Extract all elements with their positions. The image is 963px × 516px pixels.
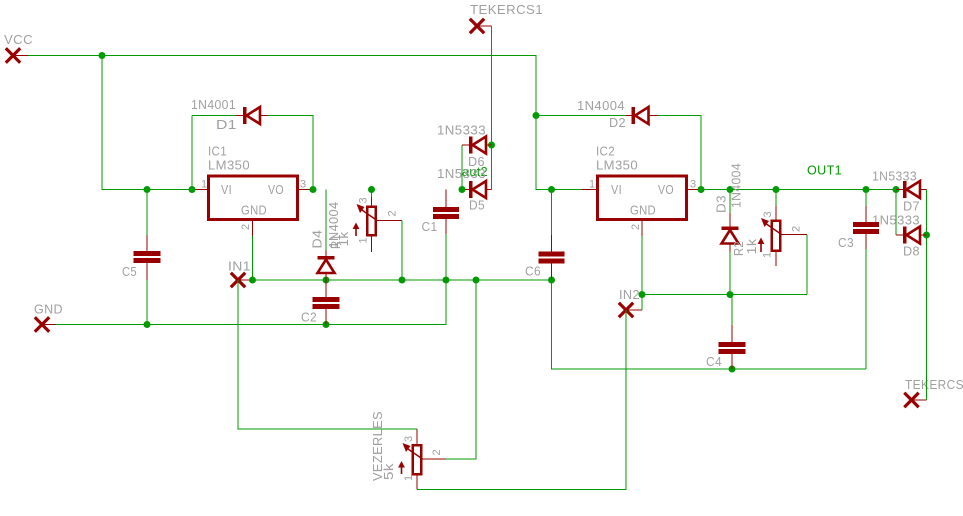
svg-text:D2: D2 (609, 115, 626, 130)
junction C5 bottom (144, 321, 151, 328)
label D7 (903, 199, 920, 214)
value 1N5333 of D7 (872, 169, 917, 184)
R1 pin 3 stub (371, 197, 373, 206)
D7 anode pin (920, 189, 927, 191)
wire C6 bottom drop (552, 280, 867, 369)
wire IC2 adj drop (641, 236, 643, 310)
junction D2 tap (533, 112, 540, 119)
IC1 pin number 1 (201, 179, 208, 191)
label D5 (469, 198, 485, 213)
capacitor C6 (539, 252, 565, 264)
C4 pin 1 (731, 325, 733, 342)
svg-text:2: 2 (387, 210, 399, 217)
value 1N5333 of D6 (437, 123, 486, 138)
svg-text:1: 1 (762, 251, 774, 258)
wire D2 left leg (536, 115, 626, 117)
R3 adjust arrow (398, 461, 405, 474)
svg-text:3: 3 (300, 179, 307, 191)
potentiometer R3 VEZERLES 5k body (413, 445, 422, 474)
junction D3 top (727, 186, 734, 193)
svg-text:1N5333: 1N5333 (872, 169, 917, 184)
svg-text:TEKERCS1: TEKERCS1 (470, 2, 543, 17)
svg-text:D7: D7 (903, 199, 920, 214)
capacitor C4 (719, 342, 746, 354)
label D6 (468, 154, 485, 169)
svg-text:1: 1 (201, 179, 208, 191)
svg-text:1: 1 (403, 474, 415, 481)
D5 cathode pin (462, 189, 469, 191)
capacitor C2 (313, 297, 340, 309)
wire D1 right leg (268, 116, 313, 190)
net label TEKERCS1 (470, 2, 543, 17)
R2 pin 2 stub (782, 234, 808, 236)
junction C3 top (863, 186, 870, 193)
IC2 pin name GND (630, 203, 656, 218)
wire C3 top leg (865, 190, 867, 207)
IC2 pin 3 stub (687, 189, 702, 191)
svg-text:1: 1 (589, 179, 596, 191)
R1 pin 2 stub (377, 220, 402, 222)
svg-text:LM350: LM350 (596, 158, 638, 173)
svg-text:VO: VO (268, 182, 284, 197)
junction IC1 output (310, 186, 317, 193)
IC1 pin name VO (268, 182, 284, 197)
wire R1 wiper drop (401, 221, 403, 281)
svg-text:VI: VI (221, 182, 232, 197)
svg-text:OUT1: OUT1 (807, 163, 842, 178)
IC1 pin 3 stub (298, 189, 314, 191)
wire ADJ2 rail (642, 294, 807, 296)
svg-text:D5: D5 (469, 198, 485, 213)
D1 cathode pin (236, 115, 243, 117)
C4 pin 2 (731, 354, 733, 369)
label D2 (609, 115, 626, 130)
capacitor C1 (433, 207, 459, 219)
svg-text:1N5333: 1N5333 (872, 213, 920, 228)
wire IC1 adj drop (252, 236, 254, 280)
D2 cathode pin (626, 115, 632, 117)
label IC2 (596, 144, 615, 159)
svg-text:3: 3 (358, 197, 370, 204)
junction D7 left (893, 186, 900, 193)
value 5k of R3 (381, 463, 396, 480)
svg-text:TEKERCS2: TEKERCS2 (905, 377, 963, 392)
svg-text:VO: VO (658, 182, 674, 197)
C5 pin 1 (146, 235, 148, 251)
svg-text:IC2: IC2 (596, 144, 615, 159)
wire IN1 to VEZERLES pot (238, 280, 417, 429)
svg-text:D1: D1 (216, 117, 237, 132)
junction C6 top (548, 186, 555, 193)
zener diode D6 (469, 137, 486, 154)
label VEZERLES (370, 411, 385, 481)
label D1 (216, 117, 237, 132)
D3 anode pin (729, 244, 731, 252)
R1 pin number 2 (387, 210, 399, 217)
wire D2 right leg (658, 116, 701, 190)
pin TEKERCS2 (904, 393, 926, 407)
D6 anode pin (486, 144, 492, 146)
junction D4-C2 (323, 277, 330, 284)
wire IN2 down to pot bottom (417, 310, 626, 490)
IC2 pin number 1 (589, 179, 596, 191)
R1 pin number 3 (358, 197, 370, 204)
junction C4 bottom (729, 366, 736, 373)
wire C5 top leg (146, 190, 148, 236)
wire TEKERCS1 down (491, 26, 493, 190)
wire D3 top leg (729, 190, 731, 214)
junction C2 bottom (323, 321, 330, 328)
pin TEKERCS1 (470, 19, 492, 33)
net label VCC (4, 32, 33, 47)
value 1N5333 of D8 (872, 213, 920, 228)
IC1 pin 1 stub (192, 189, 209, 191)
svg-text:GND: GND (34, 302, 63, 317)
D5 anode pin (486, 189, 492, 191)
R2 pin 1 stub (775, 252, 777, 266)
potentiometer R1 1k body (367, 207, 376, 236)
D8 cathode pin (896, 234, 903, 236)
junction IC2 output (698, 186, 705, 193)
wire C1 bottom leg (445, 234, 447, 280)
D1 anode pin (260, 115, 268, 117)
svg-text:1k: 1k (744, 238, 759, 254)
C2 pin 2 (325, 309, 327, 325)
label R1 (328, 234, 343, 249)
diode D2 (632, 107, 649, 124)
svg-text:GND: GND (630, 203, 656, 218)
junction C1 bottom (443, 277, 450, 284)
supply symbol VCC (6, 48, 28, 62)
wire GND rail (56, 280, 446, 325)
wire D6 left leg (461, 145, 463, 190)
junction D8 right (923, 232, 930, 239)
wire VCC rail (28, 56, 582, 190)
svg-text:3: 3 (690, 179, 697, 191)
IC2 pin number 2 (630, 223, 642, 230)
svg-text:C6: C6 (525, 264, 541, 279)
IC1 pin 2 stub (252, 220, 254, 237)
wire D7-D8 right column (926, 190, 928, 401)
value 1k of R1 (336, 231, 351, 246)
junction IC1 adj (249, 277, 256, 284)
D8 anode pin (920, 234, 927, 236)
R1 wiper arrow (357, 204, 378, 221)
D4 anode pin (325, 274, 327, 281)
wire C6 top leg (551, 190, 553, 236)
zener diode D5 (469, 181, 486, 198)
D4 cathode pin (325, 250, 327, 256)
svg-text:1N4001: 1N4001 (191, 97, 236, 112)
label D3 (714, 195, 729, 213)
D2 anode pin (649, 115, 659, 117)
svg-text:GND: GND (241, 203, 267, 218)
IC1 pin number 3 (300, 179, 307, 191)
R2 wiper arrow (761, 218, 782, 235)
IC2 pin 2 stub (641, 220, 643, 237)
wire ADJ1 rail (253, 279, 552, 281)
label D8 (903, 244, 920, 259)
junction D3 bottom (727, 291, 734, 298)
R3 pin 1 stub (416, 476, 418, 490)
net label IN2 (619, 287, 640, 302)
junction R1 wiper (399, 277, 406, 284)
diode D1 (243, 107, 260, 124)
value 1k of R2 (744, 238, 759, 254)
svg-text:D8: D8 (903, 244, 920, 259)
label C3 (838, 235, 854, 250)
label D4 (310, 230, 325, 249)
svg-text:C1: C1 (422, 219, 438, 234)
C6 pin 2 (551, 264, 553, 281)
junction VEZERLES wiper riser (473, 277, 480, 284)
supply symbol GND (35, 317, 56, 331)
wire C4 top leg (731, 295, 733, 326)
IC2 pin name VO (658, 182, 674, 197)
value LM350 of IC1 (208, 158, 250, 173)
IC2 pin number 3 (690, 179, 697, 191)
R2 pin 3 stub (775, 206, 777, 220)
D6 cathode pin (462, 144, 469, 146)
junction R2 top (773, 186, 780, 193)
IC2 pin 1 stub (582, 189, 598, 191)
wire R2 top leg (775, 190, 777, 207)
wire D3 bottom leg (729, 252, 731, 295)
svg-text:IC1: IC1 (208, 144, 227, 159)
zener diode D8 (903, 227, 920, 244)
svg-text:IN1: IN1 (228, 259, 251, 274)
C3 pin 2 (865, 234, 867, 249)
R3 pin number 1 (403, 474, 415, 481)
svg-text:VCC: VCC (4, 32, 33, 47)
value 1N5333 of D5 (437, 166, 486, 181)
net label TEKERCS2 (905, 377, 963, 392)
R2 pin number 3 (762, 211, 774, 218)
IC1 pin name VI (221, 182, 232, 197)
R2 pin number 1 (762, 251, 774, 258)
wire D1 left leg (192, 116, 236, 190)
svg-text:5k: 5k (381, 463, 396, 480)
junction D6 right (488, 142, 495, 149)
junction VCC rail x102 (99, 52, 106, 59)
svg-text:2: 2 (240, 223, 252, 230)
wire D4 top leg (325, 190, 327, 251)
value 1N4004 of D4 (326, 202, 341, 249)
label C1 (422, 219, 438, 234)
svg-text:1N5333: 1N5333 (437, 123, 486, 138)
junction R1 top (368, 186, 375, 193)
svg-text:1N5333: 1N5333 (437, 166, 486, 181)
R2 adjust arrow (758, 238, 765, 253)
D3 cathode pin (729, 213, 731, 227)
wire R1 top leg (371, 190, 373, 198)
R1 adjust arrow (353, 223, 360, 237)
D7 cathode pin (896, 189, 903, 191)
label C4 (706, 354, 722, 369)
net label GND (34, 302, 63, 317)
wire C3 bottom leg (865, 249, 867, 369)
IC1 pin name GND (241, 203, 267, 218)
diode D4 (318, 256, 335, 273)
wire D8 left leg (895, 190, 897, 236)
value 1N4004 of D3 (729, 163, 744, 208)
svg-text:C4: C4 (706, 354, 722, 369)
wire OUT1 rail (701, 189, 896, 191)
svg-text:2: 2 (630, 223, 642, 230)
svg-text:3: 3 (403, 435, 415, 442)
wire R2 wiper drop (806, 235, 808, 295)
net label OUT1 (807, 163, 842, 178)
label C5 (122, 264, 137, 279)
wire VCC drop to IC1 input (102, 56, 192, 190)
svg-text:2: 2 (791, 225, 803, 232)
IC1 pin number 2 (240, 223, 252, 230)
svg-text:VI: VI (611, 182, 622, 197)
C6 pin 1 (551, 235, 553, 252)
R3 pin 3 stub (416, 429, 418, 444)
R1 pin number 1 (358, 237, 370, 244)
capacitor C3 (853, 222, 879, 234)
potentiometer R2 1k body (772, 221, 781, 251)
C2 pin 1 (325, 280, 327, 297)
svg-text:C5: C5 (122, 264, 137, 279)
junction D5 left (459, 186, 466, 193)
op-amp regulator IC2 LM350 body (598, 176, 687, 220)
svg-text:D3: D3 (714, 195, 729, 213)
C1 pin 1 (445, 190, 447, 208)
svg-text:1N4004: 1N4004 (729, 163, 744, 208)
svg-text:D4: D4 (310, 230, 325, 249)
value 1N4001 of D1 (191, 97, 236, 112)
svg-text:C3: C3 (838, 235, 854, 250)
op-amp regulator IC1 LM350 body (209, 176, 298, 220)
junction C6 bottom (548, 277, 555, 284)
label C6 (525, 264, 541, 279)
junction IC2 adj (639, 291, 646, 298)
pin IN1 (231, 273, 253, 287)
wire C5 bottom leg (146, 280, 148, 325)
value LM350 of IC2 (596, 158, 638, 173)
svg-text:C2: C2 (301, 310, 317, 325)
R3 wiper arrow (403, 443, 423, 459)
junction C5 top (144, 186, 151, 193)
IC2 pin name VI (611, 182, 622, 197)
R1 pin 1 stub (371, 237, 373, 253)
svg-text:IN2: IN2 (619, 287, 640, 302)
diode D3 (722, 227, 739, 244)
R2 pin number 2 (791, 225, 803, 232)
net label aut2 (462, 164, 488, 179)
net label IN1 (228, 259, 251, 274)
svg-text:1k: 1k (336, 231, 351, 246)
junction IC1 input (189, 186, 196, 193)
C1 pin 2 (445, 219, 447, 234)
svg-text:LM350: LM350 (208, 158, 250, 173)
label R2 (731, 241, 746, 256)
value 1N4004 of D2 (577, 98, 625, 113)
svg-text:2: 2 (431, 449, 443, 456)
label IC1 (208, 144, 227, 159)
R3 pin 2 stub (423, 458, 447, 460)
svg-text:3: 3 (762, 211, 774, 218)
C5 pin 2 (146, 263, 148, 280)
label C2 (301, 310, 317, 325)
capacitor C5 (134, 251, 161, 263)
C3 pin 1 (865, 206, 867, 222)
R3 pin number 2 (431, 449, 443, 456)
svg-text:1N4004: 1N4004 (577, 98, 625, 113)
zener diode D7 (903, 181, 920, 198)
svg-text:1: 1 (358, 237, 370, 244)
R3 pin number 3 (403, 435, 415, 442)
pin IN2 (619, 303, 642, 317)
wire R3 wiper leg (446, 280, 476, 459)
